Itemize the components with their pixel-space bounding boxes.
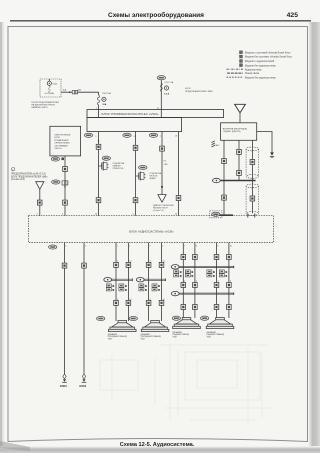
inline connector on battery wire (69, 91, 78, 94)
wire rear-right spk L (216, 243, 218, 319)
svg-text:«КДЕМ» (НЕКТВ): «КДЕМ» (НЕКТВ) (223, 131, 241, 133)
fusible link squiggle PW1 (97, 95, 100, 105)
ghost bleed-through (decorative) (100, 345, 270, 425)
svg-text:НА АККУМУЛЯТОРНОЙ: НА АККУМУЛЯТОРНОЙ (32, 104, 56, 107)
MICU control unit box (50, 126, 81, 156)
svg-text:Модели без аудиосистемы: Модели без аудиосистемы (245, 76, 276, 79)
svg-text:4: 4 (150, 261, 151, 263)
svg-text:УПРАВЛЕНИЯ: УПРАВЛЕНИЯ (54, 139, 69, 142)
svg-text:425: 425 (287, 12, 299, 19)
wire front-left spk left (115, 243, 117, 322)
fuse reference label (11, 172, 48, 181)
svg-text:10: 10 (230, 246, 232, 248)
connector rear row2 (181, 283, 186, 288)
pin detail stack front-left spk L (106, 284, 114, 291)
svg-text:«ВЧ»: «ВЧ» (108, 339, 113, 341)
fuse circle P34 (164, 86, 168, 90)
oval tag rear 2 (171, 291, 179, 295)
schema arrow diagnostic (158, 195, 166, 203)
VSM lower section (87, 118, 182, 132)
oval tag illum 1 (102, 156, 110, 160)
inline connector pair on MICU wire (62, 181, 68, 185)
connector rear row3 (193, 305, 198, 310)
connector rear row1 (193, 255, 198, 260)
ground symbol G504 (82, 374, 87, 382)
illumination lamp 2 label (150, 172, 162, 180)
connector ground wire 1 (62, 263, 67, 268)
svg-text:(Схема 14-9): (Схема 14-9) (11, 179, 25, 181)
connector front-right spk L2 (146, 300, 151, 305)
svg-text:БЛОК ПРЕДОХРАНИТЕЛЕЙ: БЛОК ПРЕДОХРАНИТЕЛЕЙ (32, 101, 60, 104)
oval tag rear 1 (171, 265, 179, 269)
svg-text:100A: 100A (52, 83, 57, 86)
connector illum 1 bottom (96, 198, 101, 203)
speaker rear-left label (173, 331, 190, 339)
speaker front-left spk (108, 321, 136, 332)
connector feeder 1 (222, 159, 227, 164)
connector rear row1 (214, 255, 219, 260)
svg-text:ПРИБОРОВ: ПРИБОРОВ (113, 168, 124, 170)
speaker front-left spk label (108, 333, 127, 341)
oval tag front-right spk (136, 278, 144, 282)
pin detail stack rear (219, 270, 227, 277)
speaker front-right spk (141, 321, 169, 332)
svg-text:Модели с аудиосистемой: Модели с аудиосистемой (245, 60, 275, 63)
svg-text:14: 14 (129, 261, 131, 263)
battery fuse box label (32, 101, 60, 109)
coax cylinder 2 (246, 184, 259, 215)
antenna feeder wire mid (238, 140, 240, 180)
scan shadow right edge (309, 22, 320, 446)
ground symbol G503 (62, 374, 67, 382)
svg-text:ПРЕДОХРАНИТЕЛЬ №49 (7,5 А): ПРЕДОХРАНИТЕЛЬ №49 (7,5 А) (11, 172, 46, 175)
connector rear row2 (214, 283, 219, 288)
speaker rear-right label (207, 331, 225, 339)
MICU label (54, 134, 70, 151)
svg-text:Модели без системы «Honda Smar: Модели без системы «Honda Smart Key» (245, 56, 293, 59)
connector left column (37, 200, 42, 205)
connector front-left spk R2 (126, 300, 131, 305)
fusible link squiggle P34 (160, 83, 162, 91)
pin detail stack rear (185, 270, 193, 277)
connector rear row1 (227, 255, 232, 260)
wire battery to VSM feed (61, 92, 99, 95)
svg-text:КОАКС.: КОАКС. (214, 144, 221, 147)
wire PW1 into VSM (98, 105, 100, 118)
svg-text:G504: G504 (79, 384, 86, 388)
wire rear-right spk R (228, 243, 230, 319)
svg-text:АУДИО: АУДИО (150, 177, 157, 180)
shield bar 2 (217, 214, 234, 216)
pin detail stack rear (174, 270, 182, 277)
svg-text:ЭЛЕКТРОННЫЙ: ЭЛЕКТРОННЫЙ (54, 134, 70, 137)
wire front-right spk left (148, 243, 150, 322)
svg-text:7,5 А: 7,5 А (164, 92, 169, 95)
oval tag illum 2 (139, 165, 147, 169)
svg-text:G503: G503 (60, 384, 67, 388)
shield bar front-right spk (144, 278, 166, 281)
legend icon 2 (240, 55, 243, 58)
connector rear row3 (214, 305, 219, 310)
connector on MICU wire (63, 200, 68, 205)
wire left column (39, 189, 41, 215)
audio unit box (dashed) (28, 216, 273, 243)
connector front-left spk L1 (114, 262, 119, 267)
svg-text:«MICU»: «MICU» (54, 148, 62, 150)
antenna box (221, 123, 257, 141)
shield bar rear 1 (179, 266, 234, 269)
connector coax 2 (250, 196, 255, 201)
svg-text:Модели без аудиосистемы: Модели без аудиосистемы (245, 64, 276, 67)
fuse circle PW1 (102, 97, 106, 101)
antenna feeder wire left (223, 140, 225, 215)
connector feeder mid 1 (237, 149, 242, 154)
svg-text:Модели с системой «Honda Smart: Модели с системой «Honda Smart Key» (245, 51, 291, 54)
connector front-right spk R1 (159, 262, 164, 267)
audio box output pins (65, 246, 232, 248)
connector diagnostic (160, 146, 165, 151)
antenna symbol (235, 104, 246, 123)
connector rear row3 (181, 305, 186, 310)
fuse #1 100A (45, 79, 58, 95)
legend line style 1 (227, 68, 262, 71)
svg-text:БЛОК: БЛОК (185, 88, 191, 90)
connector acc feed (176, 196, 181, 201)
pin marks front-left spk 1 (117, 261, 131, 263)
legend icon 1 (240, 51, 243, 54)
wire diagnostic (161, 132, 163, 195)
antenna box label (223, 127, 248, 133)
svg-text:БЛОК ПРЕДОХРАНИТЕЛЕЙ «ВФ»: БЛОК ПРЕДОХРАНИТЕЛЕЙ «ВФ» (11, 175, 48, 178)
legend line style 2 (227, 72, 260, 75)
connector illum 2 bottom (133, 198, 138, 203)
connector ground wire 2 (82, 263, 87, 268)
connector rear row2 (193, 283, 198, 288)
wire MICU down (64, 156, 66, 216)
scan blotch bottom-left (0, 441, 30, 451)
junction square (161, 186, 163, 188)
MICU pin oval (51, 157, 64, 161)
oval tag speaker front-right spk (129, 316, 137, 320)
coax cylinder 2 inner wire (251, 181, 253, 214)
oval tag ground pair (49, 245, 57, 249)
svg-text:№1 (100A): №1 (100A) (45, 92, 55, 95)
legend icon 4 (240, 64, 243, 67)
direction arrow (98, 141, 100, 143)
direction arrow micu (64, 186, 66, 188)
connector feeder mid 2 (237, 170, 242, 175)
svg-text:1: 1 (117, 246, 118, 248)
connector rear row1 (181, 255, 186, 260)
wire illumination 2 (135, 132, 137, 216)
VSM pin oval 3 (149, 133, 162, 138)
oval tag on shield bar (213, 178, 221, 182)
VSM pin oval 2 (123, 133, 136, 138)
pin detail stack front-right spk L (139, 284, 147, 291)
fuse block IVR label (185, 88, 214, 93)
svg-text:АНТЕННА (НА КРЫШЕ): АНТЕННА (НА КРЫШЕ) (223, 127, 248, 130)
svg-text:Линия связи: Линия связи (245, 72, 260, 75)
svg-text:СИСТЕМАМИ: СИСТЕМАМИ (54, 144, 68, 147)
pin detail stack front-right spk R (152, 284, 160, 291)
svg-text:«НЧ»: «НЧ» (173, 337, 178, 339)
shield bar 1 (221, 180, 256, 182)
illumination lamp 1 label (113, 162, 125, 170)
svg-text:РW1 10A: РW1 10A (102, 92, 111, 95)
svg-text:РЭ4 7,5А: РЭ4 7,5А (165, 81, 174, 84)
fuse column wire (160, 80, 162, 118)
wire front-right spk right (161, 243, 163, 322)
footnote circle 1 (12, 168, 15, 172)
pin detail stack front-left spk R (119, 284, 127, 291)
connector coax 1 (250, 160, 255, 165)
connector front-left spk L2 (114, 300, 119, 305)
svg-text:8: 8 (196, 246, 197, 248)
pin marks front-right spk 2 (150, 299, 165, 301)
wire rear-left spk R (194, 243, 196, 319)
connector feeder 2 (222, 195, 227, 200)
svg-text:7: 7 (184, 246, 185, 248)
scan shadow bottom edge (0, 447, 320, 453)
scan shadow left edge (0, 22, 4, 446)
coax hatch marks (212, 141, 221, 147)
pin marks front-right spk 1 (150, 261, 165, 263)
oval tag front-left spk (104, 278, 112, 282)
VSM pin oval 1 (84, 133, 97, 138)
wire rear-left spk L (182, 243, 184, 319)
VSM control unit box (band) (87, 110, 224, 118)
wire acc feed (178, 132, 180, 216)
shield bar front-left spk (112, 278, 133, 281)
svg-text:6: 6 (85, 246, 86, 248)
connector illum 1 top (96, 144, 101, 149)
oval tag MICU 2 (52, 180, 60, 184)
diagnostic connector label (153, 204, 174, 212)
header rule (10, 20, 311, 22)
ground wire 1 (64, 243, 66, 375)
illumination lamp 1 (99, 162, 109, 171)
svg-text:14: 14 (163, 261, 165, 263)
battery fuse box (dashed) (40, 79, 61, 97)
connector rear row3 (227, 305, 232, 310)
connector front-right spk R2 (159, 300, 164, 305)
ground wire 2 (83, 243, 85, 375)
svg-text:(Схема 7-4): (Схема 7-4) (153, 210, 164, 212)
coax drops to audio unit (248, 213, 255, 217)
connector tag G3 (157, 76, 165, 80)
svg-text:ПРЕДОХРАНИТЕЛЕЙ «ИВР»: ПРЕДОХРАНИТЕЛЕЙ «ИВР» (185, 90, 214, 93)
svg-text:4: 4 (117, 261, 118, 263)
connector rear row2 (227, 283, 232, 288)
svg-text:БЛОК АУДИОСИСТЕМЫ «АСВ»: БЛОК АУДИОСИСТЕМЫ «АСВ» (129, 229, 174, 233)
pin marks rear (184, 281, 231, 283)
antenna ground symbol (270, 152, 275, 157)
oval tag speaker rear-left (172, 316, 180, 320)
connector illum 2 top (133, 145, 138, 150)
coax cylinder 1 (246, 147, 259, 178)
svg-text:ДИАГНОСТИЧЕСКИЙ: ДИАГНОСТИЧЕСКИЙ (153, 204, 174, 207)
antenna ground stub wire (257, 132, 272, 153)
oval tag speaker rear-right (200, 316, 208, 320)
speaker rear-right (206, 318, 234, 329)
svg-text:2: 2 (129, 246, 130, 248)
svg-text:Схема 12-5. Аудиосистема.: Схема 12-5. Аудиосистема. (120, 442, 195, 448)
svg-text:СЕРВИСНЫМИ: СЕРВИСНЫМИ (54, 143, 70, 145)
svg-text:10A: 10A (102, 103, 106, 106)
svg-text:БЛОК: БЛОК (54, 137, 60, 139)
shield bar rear 2 (179, 292, 234, 295)
legend icon 3 (240, 60, 243, 63)
svg-text:Схемы электрооборудования: Схемы электрооборудования (108, 11, 204, 19)
wire tick labels (164, 160, 169, 166)
coax cylinder 1 inner wire (251, 140, 253, 180)
wire illumination 1 (98, 132, 100, 216)
svg-text:«ВЧ»: «ВЧ» (141, 339, 146, 341)
pin detail stack rear (207, 270, 215, 277)
speaker rear-left (173, 318, 201, 329)
legend line style 3 (227, 76, 277, 79)
connector front-left spk R1 (126, 262, 131, 267)
svg-text:РАЗЪЕМ «ИСУ»: РАЗЪЕМ «ИСУ» (153, 207, 169, 210)
oval tag speaker front-left spk (97, 316, 105, 320)
connector front-right spk L1 (146, 262, 151, 267)
svg-text:Аудиосистема: Аудиосистема (245, 68, 262, 71)
svg-text:«НЧ»: «НЧ» (207, 337, 212, 339)
svg-text:БЛОК УПРАВЛЕНИЯ MULTIPLEX «VSM: БЛОК УПРАВЛЕНИЯ MULTIPLEX «VSM» (102, 112, 159, 116)
illumination lamp 2 (136, 172, 146, 181)
connector MICU top (63, 167, 68, 172)
svg-text:П4: П4 (164, 160, 166, 162)
svg-text:3: 3 (149, 246, 150, 248)
pin marks front-left spk 2 (117, 299, 131, 301)
svg-text:4: 4 (162, 246, 163, 248)
svg-text:БАТАРЕЕ «НЕТ»: БАТАРЕЕ «НЕТ» (32, 106, 49, 109)
svg-text:5: 5 (65, 246, 66, 248)
antenna connector dashed box (210, 211, 222, 218)
svg-text:9: 9 (217, 246, 218, 248)
wire front-left spk right (127, 243, 129, 322)
schema arrow triangle (36, 182, 44, 190)
speaker front-right spk label (141, 333, 162, 341)
